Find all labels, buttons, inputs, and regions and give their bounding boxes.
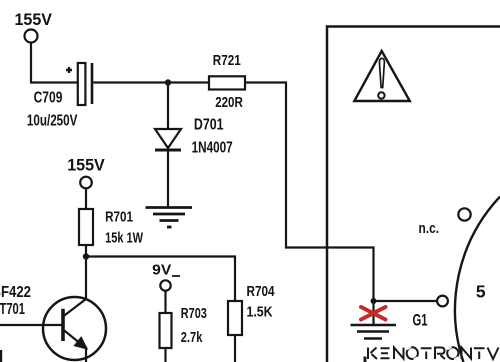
capacitor C709 (polarized, left plate box, right plate bar) bbox=[78, 63, 92, 105]
diode D701 1N4007 bbox=[155, 117, 233, 157]
terminal 155V (top left) bbox=[15, 11, 53, 43]
svg-text:BF422: BF422 bbox=[0, 284, 31, 301]
svg-text:R704: R704 bbox=[247, 283, 276, 300]
resistor R721 bbox=[209, 52, 245, 111]
transistor T701 BF422 bbox=[0, 297, 106, 362]
svg-text:G1: G1 bbox=[413, 311, 428, 330]
terminal 9V bbox=[152, 261, 180, 290]
svg-text:R701: R701 bbox=[105, 209, 133, 226]
svg-text:155V: 155V bbox=[67, 157, 105, 175]
wire node to R704 bbox=[86, 257, 235, 302]
wire node down to crossed-out ground bbox=[372, 301, 374, 325]
resistor R703 2.7k bbox=[160, 305, 207, 348]
polarity + mark of C709 bbox=[66, 67, 72, 73]
svg-text:5: 5 bbox=[476, 281, 486, 301]
wire 9V terminal to R703 bbox=[164, 291, 166, 313]
warning triangle bbox=[354, 51, 410, 101]
resistor R701 15k 1W bbox=[79, 209, 144, 247]
ground (crossed out, below G1 node) bbox=[351, 325, 397, 339]
terminal 155V (left middle) bbox=[67, 157, 105, 189]
wire R721 to CRT area (right, down, right, down to G1 node) bbox=[245, 83, 374, 302]
svg-text:220R: 220R bbox=[215, 94, 243, 111]
resistor R704 1.5K bbox=[228, 283, 275, 335]
component lead cut at bottom-left edge bbox=[0, 350, 2, 362]
svg-text:T701: T701 bbox=[0, 301, 25, 318]
watermark KENOTRONTV (stencil logo) bbox=[368, 347, 499, 359]
svg-text:10u/250V: 10u/250V bbox=[27, 112, 78, 129]
watermark comma mark bbox=[364, 357, 367, 362]
wire terminal to R701 bbox=[85, 189, 87, 210]
wire junction to diode D701 bbox=[167, 83, 169, 130]
svg-text:9V: 9V bbox=[152, 261, 171, 278]
svg-text:R703: R703 bbox=[181, 305, 207, 322]
wire R704 down (off image) bbox=[234, 335, 236, 362]
junction node (cap / D701 / R721) bbox=[165, 79, 171, 85]
svg-text:1.5K: 1.5K bbox=[247, 303, 273, 320]
wire node down to transistor collector bbox=[85, 257, 87, 300]
svg-text:n.c.: n.c. bbox=[419, 220, 440, 237]
pin n.c. circle bbox=[458, 208, 470, 220]
svg-text:1N4007: 1N4007 bbox=[192, 139, 233, 156]
wire capacitor to R721 bbox=[93, 81, 209, 83]
wire R701 to collector node bbox=[85, 245, 87, 257]
wire from 155V terminal to capacitor C709 bbox=[31, 43, 78, 83]
svg-text:155V: 155V bbox=[15, 11, 53, 29]
svg-text:15k 1W: 15k 1W bbox=[105, 229, 144, 246]
junction node (G1 net) bbox=[371, 298, 377, 304]
svg-text:2.7k: 2.7k bbox=[181, 329, 203, 346]
pin G1 circle bbox=[437, 296, 448, 307]
svg-text:D701: D701 bbox=[194, 117, 224, 134]
ground (below D701) bbox=[146, 208, 193, 228]
junction node (R701 / R704 / collector) bbox=[83, 253, 89, 259]
wire node to G1 pin bbox=[374, 300, 438, 302]
wire R703 down (off image) bbox=[164, 348, 166, 362]
CRT socket arc bbox=[455, 197, 500, 362]
watermark stencil slits bbox=[407, 347, 458, 360]
wire diode to ground bbox=[167, 151, 169, 207]
svg-text:R721: R721 bbox=[213, 52, 241, 69]
CRT box outline bbox=[327, 27, 500, 362]
warning exclamation mark bbox=[379, 58, 384, 87]
red X deletion mark over ground bbox=[361, 307, 386, 320]
svg-text:C709: C709 bbox=[34, 89, 63, 106]
